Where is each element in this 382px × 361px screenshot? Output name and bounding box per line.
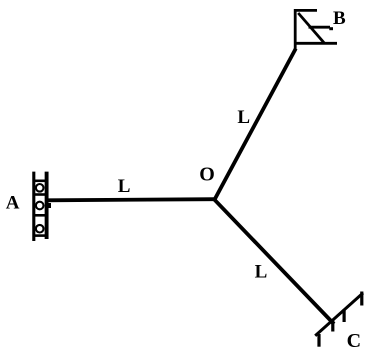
svg-text:O: O	[199, 164, 215, 186]
support B: top hatch	[294, 9, 317, 12]
wire member OB	[215, 49, 296, 200]
support A: pin nub	[48, 203, 51, 208]
svg-text:L: L	[255, 262, 268, 283]
support A: left rail	[32, 172, 35, 241]
support B: wall line	[294, 9, 297, 49]
support A: roller 1	[36, 184, 44, 192]
support A: tick 1	[33, 180, 47, 183]
support C: incline line	[315, 293, 363, 336]
wire member OA	[45, 199, 215, 200]
wire member OC	[215, 200, 335, 324]
support B: middle hatch end step	[329, 27, 333, 30]
svg-text:B: B	[333, 8, 346, 29]
support B: bottom hatch	[294, 42, 337, 45]
support A: tick 3	[33, 214, 47, 217]
support C: hatch tick 4	[360, 292, 363, 306]
support A: roller 2	[36, 202, 44, 210]
support C: hatch tick 2	[331, 321, 334, 332]
support B: middle hatch	[309, 26, 331, 29]
support A: tick 4	[33, 234, 47, 237]
svg-text:L: L	[118, 176, 131, 197]
support C: hatch tick 1	[317, 334, 320, 347]
support C: hatch tick 3	[343, 309, 346, 322]
support B: diagonal hatch	[298, 13, 324, 43]
support A: roller 3	[36, 225, 44, 233]
support A: tick 2	[33, 193, 47, 196]
svg-text:A: A	[6, 193, 20, 214]
svg-text:L: L	[237, 107, 250, 128]
support A: right rail	[45, 172, 49, 239]
svg-text:C: C	[347, 330, 361, 352]
